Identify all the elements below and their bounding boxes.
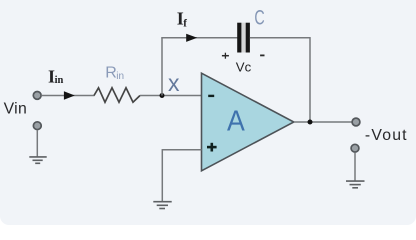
label -Vout	[365, 127, 408, 144]
junction output	[308, 120, 313, 125]
label C	[254, 6, 264, 29]
label If	[177, 8, 188, 29]
svg-text:Vc: Vc	[236, 59, 252, 74]
wire output-ground	[354, 152, 356, 181]
label Vin	[4, 101, 27, 118]
terminal Vout	[352, 118, 360, 126]
label node x	[168, 70, 180, 96]
label opamp plus input	[207, 143, 217, 152]
terminal output-ground-top	[351, 144, 359, 152]
wire output	[294, 121, 352, 123]
svg-text:R: R	[105, 65, 117, 82]
svg-text:A: A	[227, 104, 245, 136]
wire plus-input-down	[161, 149, 163, 202]
wire plus-input-left	[162, 149, 201, 151]
ground GND1	[29, 157, 46, 163]
arrow Iin	[64, 91, 75, 99]
label Iin	[48, 66, 64, 86]
svg-text:in: in	[116, 71, 124, 82]
ground GND3	[346, 181, 365, 188]
ground GND2	[153, 202, 171, 209]
label plus Vc	[222, 53, 229, 59]
op-amp A	[202, 73, 294, 171]
svg-text:-Vout: -Vout	[365, 127, 408, 144]
svg-text:x: x	[168, 70, 180, 96]
wire input	[41, 95, 94, 97]
label Vc	[236, 59, 252, 74]
wire resistor-to-opamp	[140, 95, 202, 97]
wire feedback-top-right	[250, 37, 310, 39]
terminal Vin	[33, 92, 41, 100]
label Rin	[105, 65, 124, 82]
capacitor C plates	[237, 23, 250, 53]
svg-text:in: in	[55, 75, 64, 86]
arrow If	[186, 34, 197, 42]
resistor Rin	[94, 88, 140, 102]
wire feedback-down	[309, 37, 311, 122]
label minus Vc	[260, 54, 264, 56]
label opamp minus input	[208, 95, 214, 97]
svg-text:f: f	[183, 18, 187, 30]
svg-text:Vin: Vin	[4, 101, 27, 118]
svg-text:C: C	[254, 6, 264, 29]
wire feedback-top-left	[161, 37, 237, 39]
wire feedback-up	[161, 38, 163, 96]
label A	[227, 104, 245, 136]
terminal input-ground-top	[33, 122, 41, 130]
node x junction	[160, 93, 165, 98]
wire input-ground	[36, 130, 38, 157]
